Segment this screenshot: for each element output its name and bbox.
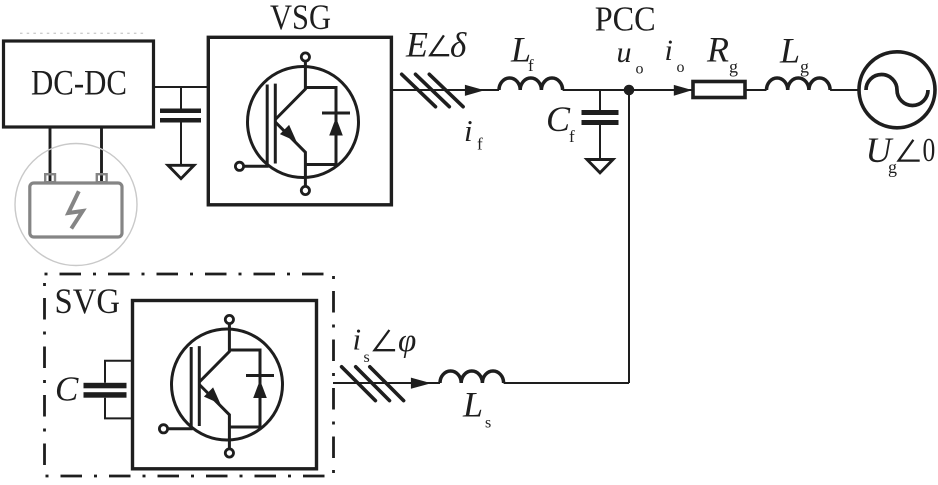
capacitor (DC link)	[180, 87, 182, 109]
SVG dash-dot box	[45, 274, 334, 476]
inductor Ls	[440, 371, 504, 383]
svg-text:PCC: PCC	[595, 0, 656, 39]
svg-text:o: o	[677, 59, 685, 76]
three-phase slash marks (VSG output)	[402, 74, 463, 106]
svg-text:C: C	[546, 99, 571, 139]
svg-text:E: E	[405, 25, 428, 65]
battery outline circle	[15, 144, 137, 266]
svg-text:C: C	[55, 369, 79, 408]
svg-text:0: 0	[923, 132, 936, 169]
svg-text:g: g	[800, 56, 809, 76]
svg-text:δ: δ	[450, 26, 467, 65]
AC source Ug	[859, 52, 935, 128]
wire Lf to Rg	[563, 89, 693, 91]
resistor Rg	[693, 82, 745, 98]
svg-text:o: o	[636, 61, 644, 78]
svg-text:i: i	[353, 322, 362, 357]
VSG box	[208, 37, 391, 205]
ground (DC link)	[168, 165, 194, 178]
inductor Lg	[767, 78, 831, 90]
DC-DC converter box	[4, 41, 154, 127]
wire DC-DC to VSG	[153, 86, 208, 88]
svg-text:g: g	[729, 56, 738, 76]
svg-text:R: R	[706, 29, 729, 69]
svg-text:L: L	[462, 385, 483, 425]
wire DC-DC to battery left	[49, 127, 52, 182]
svg-text:φ: φ	[398, 323, 416, 359]
svg-text:i: i	[665, 34, 673, 67]
inverter box (SVG)	[133, 301, 317, 469]
wire SVG output	[333, 382, 440, 384]
wire VSG output	[391, 89, 499, 91]
wire Lg to source	[830, 89, 859, 91]
wire DC-DC to battery right	[100, 127, 103, 182]
svg-text:s: s	[364, 349, 370, 366]
capacitor C	[84, 383, 127, 389]
IGBT U2 (SVG)	[159, 315, 282, 457]
three-phase slash marks (SVG output)	[342, 367, 404, 401]
capacitor C wiring	[105, 361, 133, 419]
svg-text:SVG: SVG	[55, 281, 121, 321]
svg-text:f: f	[477, 135, 483, 154]
svg-text:i: i	[464, 113, 473, 148]
svg-text:f: f	[569, 127, 575, 146]
svg-text:u: u	[617, 36, 632, 69]
svg-text:VSG: VSG	[270, 0, 331, 37]
IGBT U1 (VSG)	[235, 53, 358, 195]
svg-text:s: s	[485, 415, 491, 432]
svg-text:L: L	[779, 31, 800, 71]
wire Rg to Lg	[745, 89, 767, 91]
battery B1	[30, 174, 122, 237]
faint gray dotted artifact	[20, 32, 146, 34]
inductor Lf	[499, 78, 563, 90]
capacitor Cf	[599, 90, 601, 110]
arrow i_s	[411, 378, 431, 389]
wire PCC down to SVG branch	[628, 90, 630, 383]
wire Ls to PCC riser	[504, 382, 629, 384]
svg-text:DC-DC: DC-DC	[31, 63, 127, 103]
svg-text:f: f	[528, 56, 534, 75]
node PCC	[624, 85, 635, 96]
svg-text:g: g	[888, 157, 897, 177]
arrow i_f	[465, 85, 485, 96]
ground (Cf)	[587, 160, 613, 173]
arrow i_o	[674, 85, 693, 96]
